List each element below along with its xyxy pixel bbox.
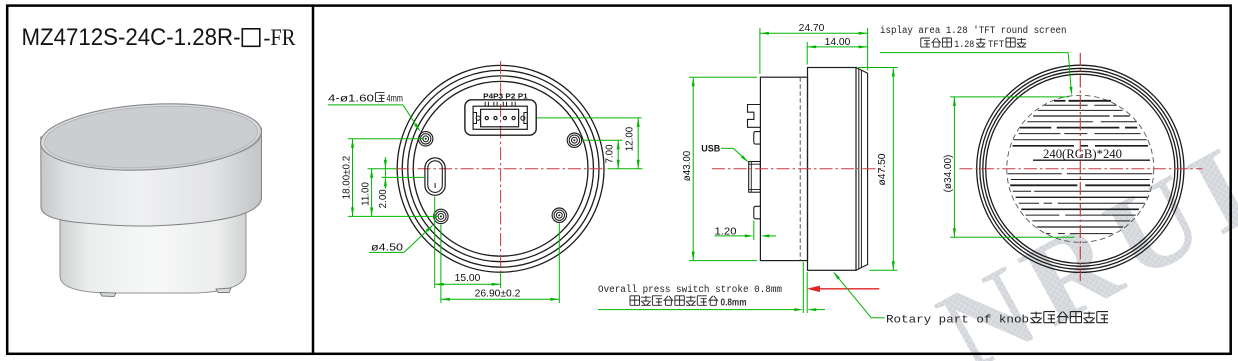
svg-text:USB: USB xyxy=(701,143,720,153)
svg-text:26.90±0.2: 26.90±0.2 xyxy=(475,289,521,300)
svg-text:(ø34.00): (ø34.00) xyxy=(943,155,954,193)
svg-text:240(RGB)*240: 240(RGB)*240 xyxy=(1043,147,1122,161)
svg-text:1.28: 1.28 xyxy=(954,39,974,50)
svg-text:ø47.50: ø47.50 xyxy=(877,153,888,185)
svg-text:4-ø1.60: 4-ø1.60 xyxy=(328,93,374,104)
svg-text:4mm: 4mm xyxy=(387,93,404,104)
svg-text:MZ4712S-24C-1.28R-: MZ4712S-24C-1.28R- xyxy=(22,24,241,51)
svg-text:11.00: 11.00 xyxy=(360,182,371,206)
svg-text:18.00±0.2: 18.00±0.2 xyxy=(341,156,352,200)
svg-text:TFT: TFT xyxy=(988,39,1004,50)
svg-text:12.00: 12.00 xyxy=(624,126,635,151)
svg-text:2.00: 2.00 xyxy=(378,189,389,209)
svg-text:24.70: 24.70 xyxy=(799,23,825,34)
svg-text:ø4.50: ø4.50 xyxy=(371,242,403,253)
svg-text:-FR: -FR xyxy=(264,25,296,51)
svg-text:15.00: 15.00 xyxy=(455,273,481,284)
svg-text:ø43.00: ø43.00 xyxy=(682,150,693,181)
svg-text:14.00: 14.00 xyxy=(825,37,851,48)
svg-text:P4P3 P2 P1: P4P3 P2 P1 xyxy=(483,91,528,100)
svg-text:Overall press switch stroke 0.: Overall press switch stroke 0.8mm xyxy=(598,284,782,296)
svg-text:0.8mm: 0.8mm xyxy=(721,297,747,308)
svg-text:isplay area 1.28 'TFT round sc: isplay area 1.28 'TFT round screen xyxy=(880,25,1067,37)
svg-text:Rotary part of knob: Rotary part of knob xyxy=(886,314,1029,326)
svg-text:7.00: 7.00 xyxy=(604,144,615,164)
